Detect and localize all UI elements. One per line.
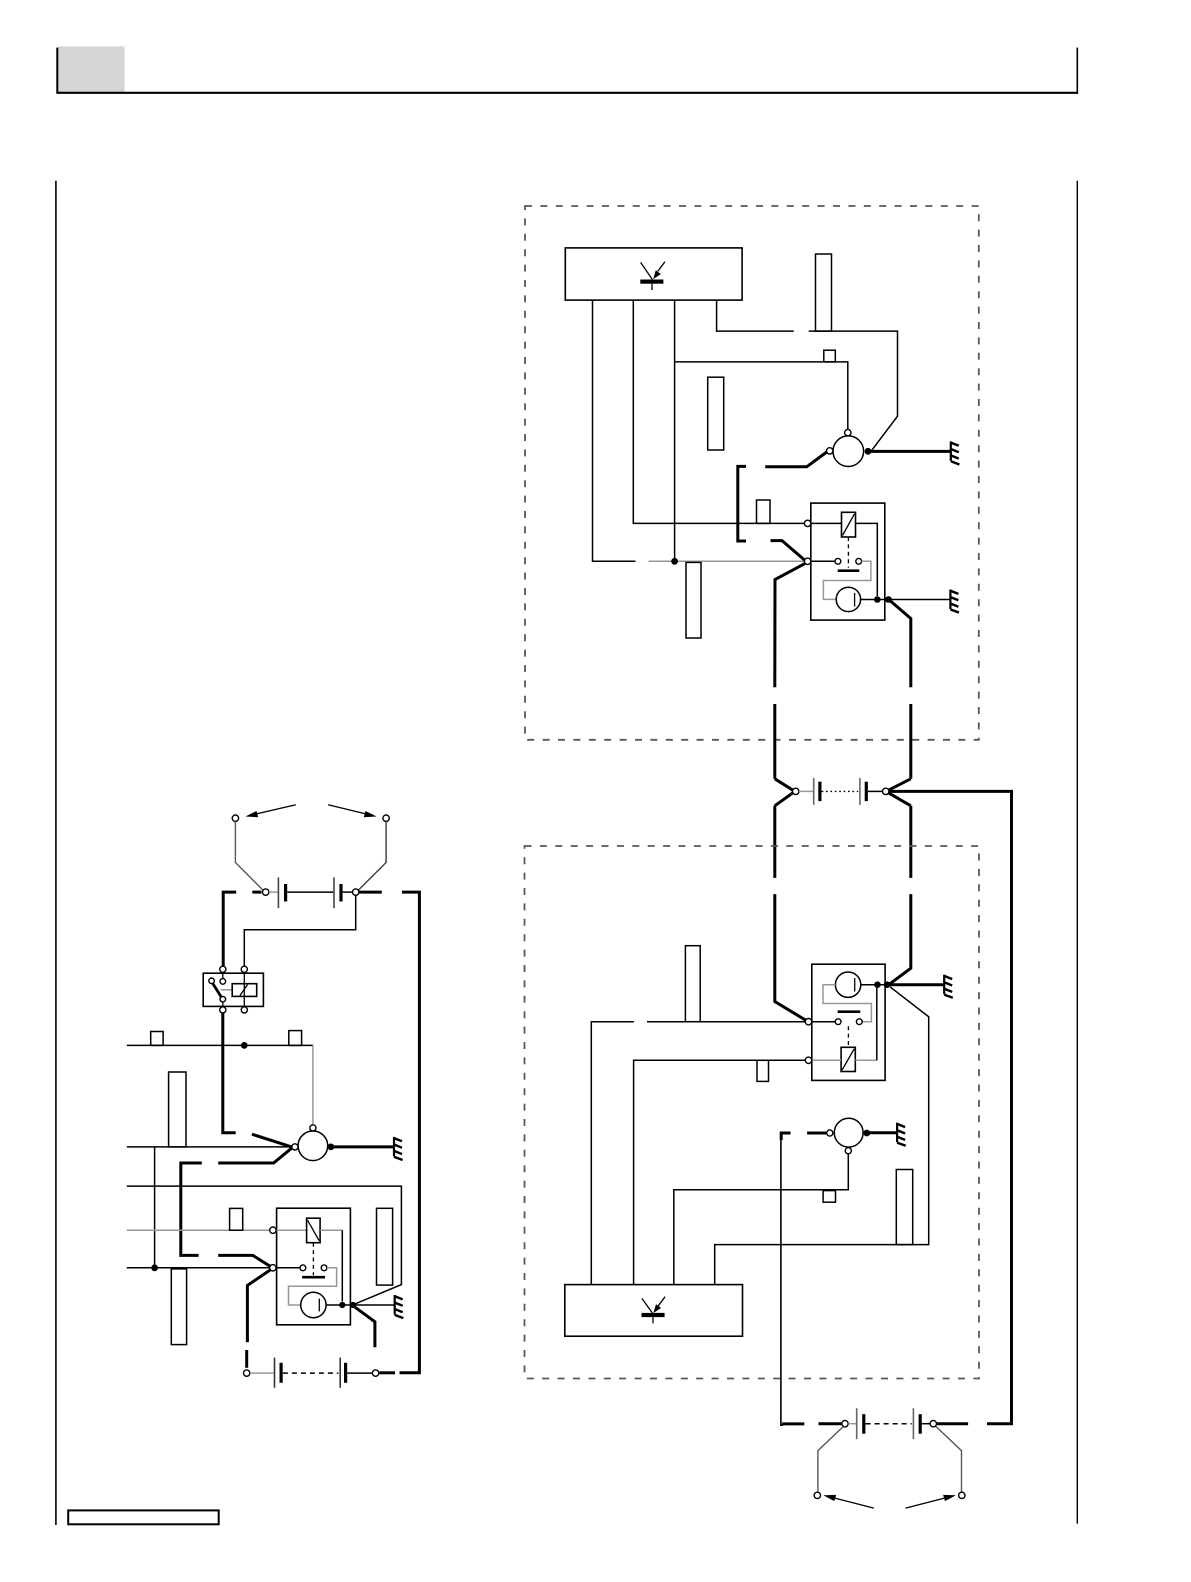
wire W6: U2 pin to R2 coil terminal	[634, 1060, 806, 1284]
CN2 dashed mating line	[866, 1423, 912, 1425]
M3 left terminal	[292, 1144, 298, 1150]
R1 contact bar	[838, 569, 860, 572]
corner stub to door wire	[781, 1133, 790, 1140]
BT1 left pin link	[269, 891, 278, 893]
switch terminal left	[232, 815, 238, 821]
node E dot	[884, 981, 891, 988]
harness wire right (lower half)	[909, 704, 912, 779]
connector TR3 right of R3	[377, 1208, 393, 1285]
contact feed wire (lower)	[647, 1021, 805, 1023]
CN2 left pin link	[848, 1423, 856, 1425]
control unit U2 (door control unit)	[565, 1285, 743, 1337]
harness wire down-right from node C	[891, 601, 911, 687]
page header left tick	[56, 48, 58, 93]
CN3 left pin link	[250, 1372, 274, 1374]
node C dot	[885, 596, 892, 603]
thick stub from CB1 to relay R1	[771, 541, 805, 561]
R3 armature dashed link	[312, 1243, 314, 1276]
thick corner feed right of BT1	[400, 892, 420, 1373]
ground GND2	[950, 590, 959, 613]
harness wire down-left from R1 switch terminal	[775, 564, 805, 688]
CN2 right pin	[930, 1421, 936, 1427]
R3 contact-to-solenoid gray wire	[289, 1268, 337, 1305]
thick diagonal M3 left to bracket CB2	[218, 1148, 291, 1163]
thick feed wire to M1 left terminal	[765, 452, 827, 467]
R2 armature dashed link	[847, 1026, 849, 1047]
connector R1b on wire L1	[289, 1031, 302, 1046]
lead from right switch terminal	[358, 822, 386, 891]
harness wire left (lower half)	[773, 704, 776, 779]
ground GND3	[944, 975, 953, 998]
SW1 bottom terminals	[220, 1007, 226, 1013]
key cylinder terminal left	[814, 1492, 820, 1498]
R2 ground wire	[890, 983, 944, 986]
connector TR2 below wire L5	[171, 1269, 186, 1345]
R2 switch terminal	[805, 1019, 811, 1025]
relay R3 (tailgate relay) box	[277, 1208, 351, 1325]
motor M1 (door lock actuator motor)	[833, 436, 864, 467]
R1 contact-to-solenoid gray wire	[823, 561, 871, 599]
R2 solenoid motor MS2	[835, 972, 860, 997]
R2 contact bar	[838, 1010, 861, 1013]
R3 fixed contact right	[321, 1265, 327, 1271]
ground GND6	[395, 1295, 404, 1318]
R2 coil terminal	[805, 1057, 811, 1063]
wire W1: U1 pin to relay area (left)	[593, 300, 636, 561]
M1 top terminal	[845, 429, 851, 435]
wire W4: U1 pin to motor M1 node (right)	[717, 300, 794, 331]
M1 output node dot	[865, 448, 872, 455]
connector T3 below wire G1	[686, 562, 701, 638]
R1 fixed contact right	[856, 558, 862, 564]
CN2 left female bar	[856, 1408, 858, 1439]
left page border	[55, 181, 57, 1525]
CN2 right male bar	[919, 1414, 922, 1434]
R3 coil terminal	[270, 1227, 276, 1233]
node B dot	[874, 596, 881, 603]
connector T2 (floating)	[708, 377, 724, 450]
node F dot	[339, 1302, 345, 1308]
M2 left terminal	[827, 1130, 833, 1136]
connector TR1 on wire L2	[169, 1072, 186, 1147]
thick corner feed left of BT1	[223, 892, 236, 966]
M2 ground wire	[870, 1131, 897, 1134]
junction dot L2-branch to L5	[151, 1264, 158, 1271]
ground GND4	[897, 1123, 906, 1146]
door wire down to connector CN2	[781, 1138, 783, 1425]
branch wire from L2 to L5	[154, 1147, 156, 1268]
right page border	[1076, 181, 1078, 1524]
BT1 cell2 long plate	[333, 877, 335, 908]
R1 fixed contact left	[835, 558, 841, 564]
R3 coil L3	[307, 1218, 321, 1243]
SW1 pivot contact	[209, 978, 215, 984]
M1 left terminal	[827, 448, 833, 454]
CN3 left female bar	[274, 1358, 276, 1388]
R3 fixed contact left	[300, 1265, 306, 1271]
trunk wire from CN1 to right riser	[889, 791, 1012, 1422]
dashed enclosure: front door module	[525, 206, 979, 740]
SW1 contact stubs	[222, 972, 224, 978]
CN1 dotted mating line	[822, 790, 859, 792]
CN2 left stub	[819, 1422, 842, 1425]
R3 ground wire	[356, 1304, 394, 1306]
CN1 right pin	[883, 788, 889, 794]
ground wire of M1	[871, 450, 951, 453]
pointer arrow to left terminal	[823, 1495, 874, 1508]
CN1 right pin link	[868, 790, 882, 792]
wire L5: feed to R3 contact terminal	[127, 1267, 270, 1269]
key cylinder terminal right	[959, 1492, 965, 1498]
page header gray tab	[57, 46, 124, 92]
lead from left switch terminal	[235, 822, 263, 891]
M2 left feed stub	[807, 1132, 827, 1135]
CN1 left pin link	[799, 790, 813, 792]
page header right tick	[1076, 48, 1078, 94]
connector bracket CB2	[181, 1163, 202, 1255]
CN2 left male bar	[862, 1414, 865, 1434]
CN3 right pin link	[347, 1372, 372, 1374]
switch terminal right	[383, 815, 389, 821]
thick stub above CN3 left pin	[245, 1350, 248, 1368]
switch SW1 (key cylinder switch) box	[203, 973, 263, 1006]
R2 coil output wire	[855, 1059, 877, 1061]
CN2 right stub	[937, 1422, 968, 1425]
impact symbol inside U1	[640, 262, 665, 290]
harness wire left to lower module (lower part)	[775, 894, 806, 1020]
relay R2 (door lock relay) box	[812, 964, 885, 1080]
R1 coil terminal	[804, 520, 810, 526]
connector TB1 above wire	[685, 946, 700, 1022]
R3 coil feed wire	[277, 1229, 307, 1231]
R1 coil L1	[842, 512, 856, 537]
CN3 left pin	[244, 1370, 250, 1376]
harness wire right to lower module (lower part)	[890, 894, 911, 984]
R3 contact terminal	[270, 1265, 276, 1271]
battery BT1 left pin	[263, 889, 269, 895]
gray wire G1 with node A	[649, 560, 805, 562]
SW1 top terminals	[220, 966, 226, 972]
BT1 right pin link	[343, 891, 353, 893]
motor M3 (tailgate actuator motor)	[298, 1131, 328, 1161]
motor M2 (door lock actuator motor)	[834, 1118, 863, 1147]
CN1 left female bar	[813, 778, 815, 805]
ground GND1	[951, 441, 960, 464]
left pin lead-out to lower module	[775, 793, 793, 806]
node G dot	[350, 1302, 356, 1308]
BT1 cell1 short plate	[284, 884, 287, 902]
CN2 right pin link	[922, 1423, 930, 1425]
BT1 cell2 short plate	[339, 884, 342, 902]
M2 bottom terminal	[845, 1148, 851, 1154]
R3 contact bar	[302, 1276, 325, 1279]
SW1 link to detent	[221, 989, 233, 991]
thick stub to CN2 left pin	[782, 1422, 804, 1425]
trunk wire corner stub	[987, 1422, 1013, 1425]
gray riser to M3 top terminal	[312, 1045, 314, 1124]
R2 fixed contact left	[835, 1019, 841, 1025]
CN1 right female bar	[859, 778, 861, 805]
pointer arrow to left switch terminal	[245, 805, 295, 817]
CN3 right male bar	[344, 1363, 347, 1383]
CN1 right male bar	[865, 782, 868, 801]
connector S4 below wire W7	[823, 1191, 835, 1203]
BT1 middle link	[287, 891, 333, 893]
pointer arrow to right terminal	[906, 1495, 957, 1508]
SW1 detent coil	[232, 984, 257, 997]
thick wire SW1 to corner	[223, 1013, 236, 1133]
footer label box	[68, 1510, 219, 1524]
wire L4: feed to R3 coil terminal	[127, 1229, 270, 1231]
R3 contact wire	[277, 1267, 300, 1269]
MS1 output wire	[861, 599, 886, 601]
MS2 output wire	[861, 984, 884, 986]
ground GND5	[394, 1137, 403, 1160]
BT1 left stub	[252, 891, 261, 894]
thick stub and diagonal to relay R3 contact terminal	[218, 1255, 270, 1266]
R1 armature dashed link	[847, 537, 849, 568]
connector S2 on wire W3	[824, 350, 836, 362]
MS2 left gray wire to contact	[823, 985, 871, 1022]
wire W7: U2 pin to motor M2 bottom terminal	[674, 1154, 849, 1285]
stub and diagonal to motor M3 left terminal	[252, 1134, 292, 1147]
connector S3 below wire W6	[757, 1060, 769, 1081]
page header rule	[56, 92, 1078, 94]
connector bracket CB1	[738, 466, 746, 541]
wire L3: feed to node G	[127, 1186, 402, 1304]
M3 output node dot	[328, 1144, 335, 1151]
relay R1 (door lock relay) box	[811, 503, 885, 620]
SW1 fixed contacts	[220, 979, 226, 985]
M3 ground wire	[334, 1145, 394, 1148]
BT1 cell1 long plate	[277, 877, 279, 908]
connector TB2 on wire W8	[896, 1170, 912, 1245]
thick diagonal node G to riser	[355, 1307, 375, 1347]
R2 coil L2	[841, 1047, 855, 1071]
CN3 left male bar	[280, 1363, 283, 1383]
M2 output node dot	[863, 1130, 870, 1137]
wire W2: U1 pin to relay coil terminal	[633, 300, 804, 523]
wire L2: feed to M3 left terminal	[127, 1146, 292, 1148]
pointer arrow to right switch terminal	[328, 805, 377, 817]
wire W3: U1 pin to motor M1 top terminal	[675, 300, 848, 429]
CN3 right female bar	[339, 1358, 341, 1388]
thick diagonal R3 contact terminal down to CN3	[247, 1270, 270, 1342]
SW1 internal through-wire	[243, 972, 245, 1006]
R2 contact wire	[812, 1021, 835, 1023]
R1 solenoid motor MS1	[836, 587, 860, 611]
impact symbol inside U2	[642, 1297, 666, 1324]
connector T1 on wire W4	[816, 254, 832, 331]
CN1 left male bar	[818, 782, 821, 801]
connector SR on wire L4	[230, 1208, 243, 1230]
R3 coil output wire	[320, 1229, 342, 1231]
R1 ground wire	[892, 599, 951, 601]
R1 coil feed wire	[811, 522, 842, 524]
R2 coil feed wire	[812, 1059, 841, 1061]
R3 solenoid motor MS3	[301, 1292, 326, 1317]
BT1 right pin	[353, 889, 359, 895]
node A junction dot	[671, 558, 678, 565]
harness wire right to lower module (upper part)	[909, 806, 912, 878]
wire W8: U2 pin to node E	[715, 987, 929, 1285]
harness wire left to lower module (upper part)	[773, 806, 776, 878]
connector S1 on wire W2	[757, 500, 771, 523]
dashed enclosure: rear door module	[525, 846, 980, 1379]
control unit U1 (door control unit)	[565, 248, 742, 300]
R1 contact wire	[811, 560, 835, 562]
CN3 right pin	[372, 1370, 378, 1376]
node D dot	[874, 981, 881, 988]
R1 coil output wire	[856, 523, 878, 596]
CN2 left pin	[842, 1421, 848, 1427]
M3 top terminal	[310, 1125, 316, 1131]
R1 switch terminal	[804, 558, 810, 564]
left pin lead-in of connector CN1	[775, 779, 793, 790]
right pin lead-out to lower module	[888, 793, 910, 806]
junction dot SW1 to L1	[241, 1042, 248, 1049]
wire L1: feed to motor M3 top	[127, 1044, 313, 1046]
MS3 output wire	[326, 1304, 351, 1306]
CN2 right female bar	[912, 1408, 914, 1439]
wire W3 branch to node A	[674, 362, 676, 561]
CN3 dashed mating line	[283, 1372, 339, 1374]
R2 fixed contact right	[856, 1019, 862, 1025]
CN3 right stub to frame corner	[379, 1371, 395, 1374]
key cylinder lead right	[936, 1427, 962, 1493]
wire W5: gray-line corner to control unit U2	[591, 1022, 634, 1285]
SW1 lever	[213, 983, 222, 997]
key cylinder lead left	[818, 1427, 843, 1493]
connector R1a on wire L1	[151, 1032, 163, 1046]
BT1 right stub	[359, 891, 382, 894]
wire from BT1 right pin to switch SW1	[244, 895, 355, 966]
CN1 left pin	[793, 788, 799, 794]
right pin lead-in of connector CN1	[888, 779, 910, 790]
